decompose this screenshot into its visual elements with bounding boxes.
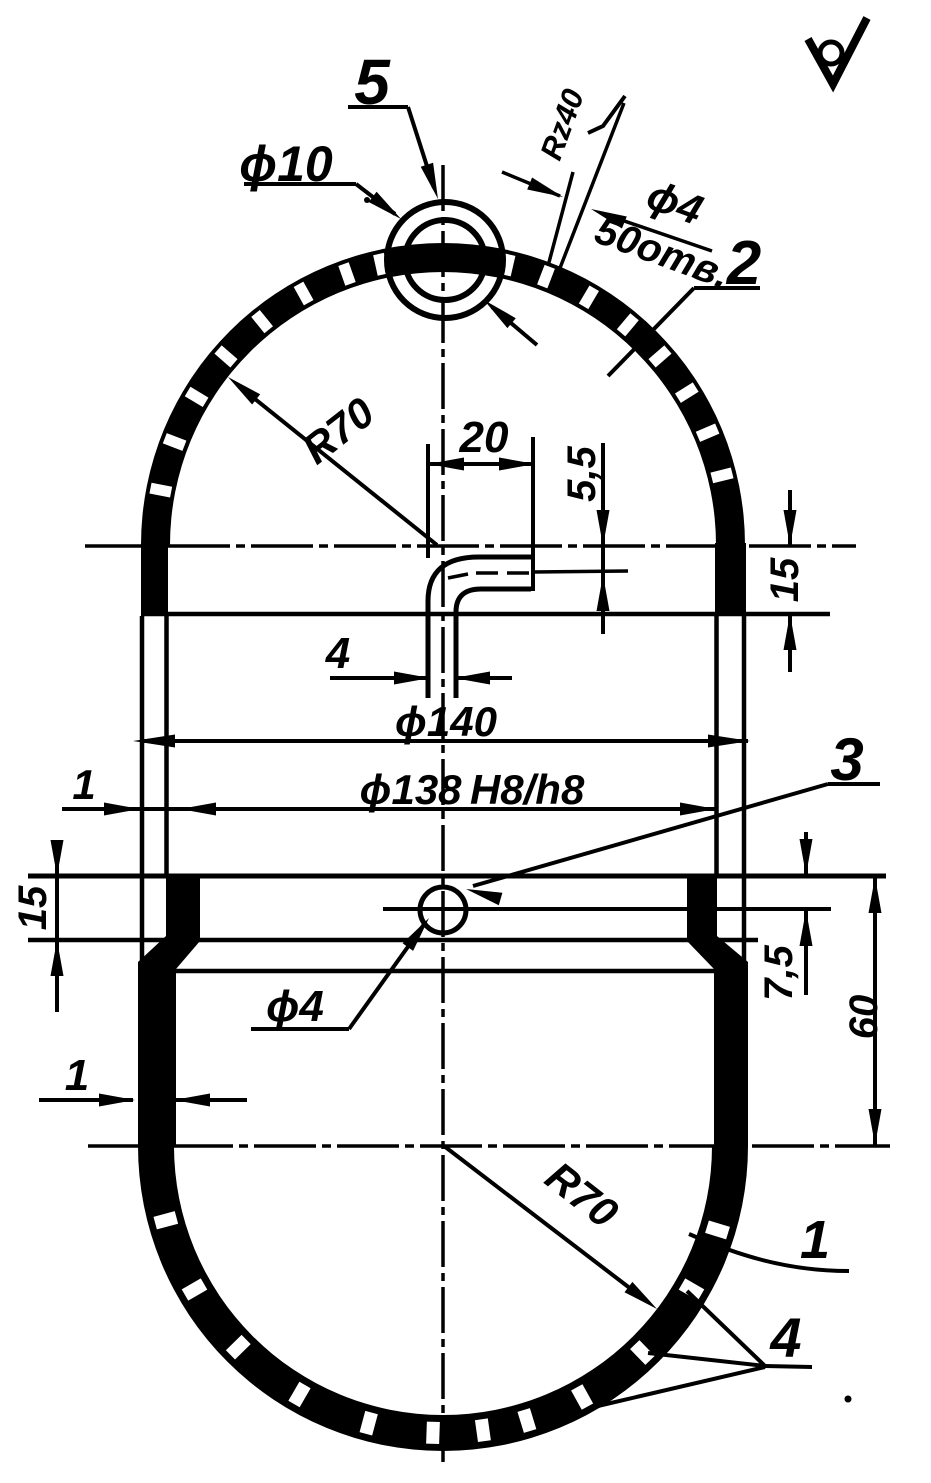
lower shell left wall with socket rim <box>138 876 200 1147</box>
top dome rim line y=614 <box>141 612 830 617</box>
small hole phi4 at joint center <box>420 887 466 933</box>
svg-text:20: 20 <box>459 413 509 462</box>
lower shell inner surface line y=971 <box>173 969 715 974</box>
phi4 50 holes dimension extension lines <box>548 172 573 266</box>
tube end cap / extension line <box>531 437 535 591</box>
dimension phi140 <box>140 739 748 743</box>
svg-text:4: 4 <box>769 1306 801 1369</box>
rim step line y=940 <box>28 938 758 943</box>
fit seam line y=909 <box>383 907 831 911</box>
phi10 boss inner circle <box>405 220 485 300</box>
svg-text:1: 1 <box>800 1210 830 1270</box>
bottom dome shell section (part 1) <box>138 1146 748 1451</box>
joint top edge line y=876 <box>28 874 886 879</box>
dimension 15 (left, socket depth) <box>55 845 59 1012</box>
upper shell right wall outline lines <box>717 616 745 877</box>
phi10 boss outer circle (item 5) <box>387 202 503 318</box>
dimension 60 (right) <box>873 877 877 1145</box>
vertical centerline <box>441 165 445 1462</box>
horizontal centerline of bottom dome <box>88 1144 890 1148</box>
lower shell right wall with socket rim <box>687 876 748 1147</box>
top shell left wall column <box>141 543 168 616</box>
svg-text:60: 60 <box>842 995 886 1040</box>
upper shell left wall outline lines <box>142 616 167 877</box>
phi4 dimension line left segment <box>502 172 560 196</box>
svg-text:5,5: 5,5 <box>560 445 604 501</box>
left wall outer line through joint <box>140 877 145 962</box>
top shell right wall column <box>715 543 746 616</box>
svg-text:7,5: 7,5 <box>757 944 801 1000</box>
elbow tube inner wall <box>456 589 531 698</box>
phi4 dimension line right segment <box>601 213 712 251</box>
left extension line of 20 dim <box>426 444 430 558</box>
dimension 7,5 (right) <box>804 832 808 875</box>
stray ink dot <box>845 1396 852 1403</box>
Rz40 roughness tick <box>588 96 625 133</box>
top dome shell section (part 2) <box>141 243 745 545</box>
svg-text:ϕ4: ϕ4 <box>266 982 324 1031</box>
dimension 1 (bottom left wall) <box>39 1098 133 1102</box>
dimension 4 (tube bore) <box>330 676 428 680</box>
svg-text:1: 1 <box>65 1051 89 1100</box>
dimension phi138 H8/h8 and 1 (wall) <box>62 807 716 811</box>
svg-text:15: 15 <box>763 557 807 602</box>
phi10 opposite arrow <box>492 307 537 345</box>
svg-text:15: 15 <box>11 885 55 930</box>
dimension 20 <box>428 462 535 466</box>
perforation holes (50 otv.) in top dome <box>149 483 172 498</box>
svg-text:1: 1 <box>72 761 95 808</box>
svg-text:4: 4 <box>325 629 350 678</box>
svg-text:ϕ140: ϕ140 <box>395 698 497 745</box>
R70 top radius leader <box>240 387 437 545</box>
perforation holes in bottom dome <box>153 1211 178 1229</box>
right wall outer line through joint <box>742 877 747 962</box>
dimension 5,5 <box>601 443 605 634</box>
svg-text:ϕ138 H8/h8: ϕ138 H8/h8 <box>360 766 585 813</box>
elbow tube outer wall <box>428 557 531 698</box>
R70 bottom radius leader <box>444 1146 648 1302</box>
dimension 15 (right upper) <box>788 490 792 546</box>
horizontal centerline of top dome <box>85 544 856 548</box>
tube centerline dashes <box>448 574 468 578</box>
surface finish symbol (top right) <box>808 18 867 84</box>
